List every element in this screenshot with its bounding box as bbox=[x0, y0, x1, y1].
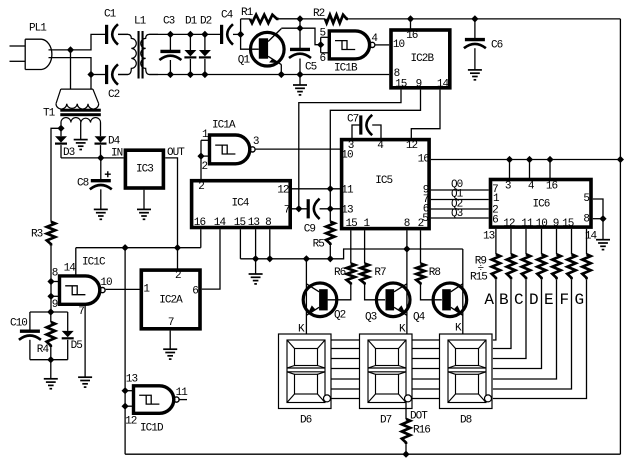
svg-text:D7: D7 bbox=[380, 415, 392, 427]
wire D7 dp to R16 bbox=[405, 402, 407, 419]
wire IC1A input tie bbox=[201, 139, 210, 141]
wire IC4 pin7 to C9 bbox=[292, 208, 308, 210]
ground C8 bbox=[94, 208, 108, 210]
node timing network top junction bbox=[47, 308, 54, 315]
wire segment bus D6-D7 bbox=[331, 378, 360, 380]
svg-text:C: C bbox=[514, 291, 523, 309]
transformer T1 secondary winding bbox=[61, 118, 101, 123]
svg-text:D3: D3 bbox=[63, 147, 75, 159]
svg-text:G: G bbox=[575, 291, 584, 309]
wire R7 to Q3 base bbox=[365, 285, 386, 300]
wire IC1D pin12 stub bbox=[125, 405, 133, 407]
capacitor C7 bbox=[359, 115, 362, 134]
wire IC1D output stub bbox=[180, 399, 188, 401]
svg-text:PL1: PL1 bbox=[29, 23, 47, 35]
svg-text:L1: L1 bbox=[134, 16, 147, 28]
capacitor C4 bbox=[220, 25, 223, 44]
node R5 top junction bbox=[327, 185, 334, 192]
svg-text:8: 8 bbox=[404, 218, 410, 230]
svg-text:R5: R5 bbox=[313, 239, 325, 251]
wire IC6 pin to R14 bbox=[571, 229, 573, 254]
node IC1C pin9 junction bbox=[47, 293, 54, 300]
node rail ground junction bbox=[252, 255, 259, 262]
capacitor C1 bbox=[105, 25, 108, 44]
wire D3 to IN node bbox=[61, 157, 101, 159]
resistor R5 bbox=[326, 222, 334, 245]
wire IC2B pin16 bbox=[410, 19, 412, 30]
svg-text:2: 2 bbox=[202, 161, 208, 173]
svg-text:6: 6 bbox=[192, 286, 198, 298]
wire R6 to Q2 base bbox=[328, 285, 351, 300]
transistor Q2 bbox=[303, 283, 337, 317]
display D6 decimal point bbox=[324, 395, 331, 402]
svg-text:R1: R1 bbox=[241, 7, 254, 19]
svg-text:D2: D2 bbox=[200, 16, 212, 28]
svg-text:6: 6 bbox=[492, 214, 498, 226]
node plug top junction bbox=[67, 46, 74, 53]
wire secondary left lead bbox=[60, 123, 62, 129]
wire IC6 pin5/pin8 tie bbox=[593, 199, 603, 219]
svg-text:16: 16 bbox=[418, 154, 430, 166]
wire segment bus D7-D8 bbox=[412, 378, 440, 380]
svg-text:D4: D4 bbox=[108, 136, 121, 148]
diode D1 bbox=[189, 34, 191, 50]
svg-text:Q4: Q4 bbox=[413, 312, 426, 324]
resistor R6 bbox=[347, 264, 355, 285]
ground IC3 bbox=[143, 190, 145, 210]
diode D2 bbox=[204, 34, 206, 50]
svg-text:C4: C4 bbox=[221, 10, 234, 22]
svg-text:6: 6 bbox=[320, 53, 326, 65]
node C9 right junction bbox=[327, 205, 334, 212]
wire IC6 pin to R12 bbox=[541, 229, 543, 254]
ic IC5 box bbox=[342, 140, 430, 229]
wire Q3 lead bbox=[406, 230, 408, 334]
wire IC6 pin4 bbox=[529, 160, 531, 180]
wire R13 to segment line bbox=[493, 279, 557, 379]
display D6 box bbox=[279, 334, 332, 409]
svg-text:12: 12 bbox=[503, 218, 515, 230]
wire IC6 pin3 bbox=[509, 160, 511, 180]
svg-text:C2: C2 bbox=[108, 89, 120, 101]
svg-text:IC2B: IC2B bbox=[411, 53, 435, 65]
display D8 box bbox=[440, 334, 493, 409]
node IC2A pin2 junction bbox=[174, 244, 181, 251]
svg-text:IC6: IC6 bbox=[533, 198, 550, 210]
svg-text:IN: IN bbox=[111, 148, 123, 160]
node IC6 pin8 junction bbox=[599, 215, 606, 222]
wire IN to IC3 bbox=[101, 157, 124, 159]
node secondary left junction bbox=[57, 125, 64, 132]
wire IC1C pin7 to ground bbox=[84, 304, 86, 377]
wire control net 248 bbox=[76, 247, 201, 249]
svg-text:D1: D1 bbox=[185, 16, 198, 28]
node IC1D pin13 junction bbox=[122, 387, 129, 394]
wire bottom bus L1 to IC2B pin8 bbox=[149, 74, 389, 76]
display D8 decimal point bbox=[485, 395, 492, 402]
svg-text:E: E bbox=[544, 291, 553, 309]
node C4 output junction bbox=[237, 31, 244, 38]
svg-text:R15: R15 bbox=[470, 272, 487, 284]
resistor R11 bbox=[522, 254, 530, 279]
node IC1D pin12 junction bbox=[122, 403, 129, 410]
wire Q1 collector to IC1B inputs bbox=[300, 28, 321, 45]
wire IC4 pin8 down bbox=[269, 229, 271, 258]
node IC4 pin8 rail junction bbox=[266, 255, 273, 262]
svg-text:Q3: Q3 bbox=[451, 208, 463, 220]
svg-text:15: 15 bbox=[395, 79, 407, 91]
node D1 top bbox=[187, 31, 194, 38]
wire C5 to bus bbox=[299, 59, 301, 75]
svg-text:B: B bbox=[499, 291, 508, 309]
wire IC2A pin6 to IC4 pin14 bbox=[202, 229, 220, 289]
wire IC1B output to IC2B bbox=[375, 44, 389, 46]
svg-text:C1: C1 bbox=[104, 9, 117, 21]
wire IC6 pin to R13 bbox=[556, 229, 558, 254]
wire junction down to T1 primary right bbox=[90, 75, 92, 90]
wire plug top output bbox=[49, 49, 71, 51]
svg-text:8: 8 bbox=[52, 268, 58, 280]
wire IC6 pin to R11 bbox=[525, 229, 527, 254]
svg-text:2: 2 bbox=[175, 270, 181, 282]
wire R8 to Q4 base bbox=[421, 285, 442, 300]
wire IC5 pin1 to R7 bbox=[364, 230, 366, 263]
wire R10 to segment line bbox=[493, 279, 511, 348]
svg-text:7: 7 bbox=[168, 317, 174, 329]
ic IC2A box bbox=[141, 270, 200, 329]
resistor R9 bbox=[492, 254, 500, 279]
wire IC6 pin to R9 bbox=[495, 229, 497, 254]
wire R5 bottom lead bbox=[329, 245, 331, 259]
node V+ rail junction bbox=[296, 15, 303, 22]
wire junction to C1 bbox=[71, 34, 107, 50]
wire R16 to bottom rail bbox=[405, 444, 407, 454]
wire plug bottom output bbox=[49, 58, 92, 75]
svg-text:IC1D: IC1D bbox=[140, 423, 164, 435]
svg-text:IC2A: IC2A bbox=[159, 294, 183, 306]
capacitor C10 bbox=[29, 312, 31, 331]
wire IC1B input tie bbox=[320, 37, 322, 53]
ground collector rail bbox=[255, 259, 257, 274]
wire collector rail A bbox=[240, 249, 462, 259]
wire top rail bbox=[279, 18, 326, 20]
wire C7 left lead to IC5 pin3 bbox=[352, 125, 361, 140]
display D6 digit bbox=[287, 340, 325, 403]
ground IC1C pin7 bbox=[78, 376, 92, 378]
svg-text:7: 7 bbox=[284, 205, 290, 217]
wire Q4 lead bbox=[462, 249, 464, 334]
wire segment bus D7-D8 bbox=[412, 388, 440, 390]
svg-text:10: 10 bbox=[536, 218, 548, 230]
op-amp gate IC1B bbox=[329, 31, 369, 59]
svg-text:11: 11 bbox=[521, 218, 534, 230]
svg-text:D6: D6 bbox=[300, 415, 312, 427]
node R5 bottom junction bbox=[327, 255, 334, 262]
svg-text:C5: C5 bbox=[305, 62, 317, 74]
transistor Q1 bbox=[250, 32, 284, 66]
node right rail junction bbox=[617, 156, 624, 163]
wire segment bus D6-D7 bbox=[331, 339, 360, 341]
svg-text:R2: R2 bbox=[313, 8, 325, 20]
wire stub to R3 vertical bbox=[51, 128, 61, 222]
svg-text:13: 13 bbox=[248, 217, 260, 229]
node IC1B input junction bbox=[317, 41, 324, 48]
node C2 junction bbox=[87, 71, 94, 78]
node R16 bottom junction bbox=[402, 451, 409, 458]
svg-text:5: 5 bbox=[583, 193, 589, 205]
svg-text:2: 2 bbox=[418, 218, 424, 230]
wire timing bottom bbox=[30, 359, 68, 361]
svg-text:15: 15 bbox=[346, 218, 358, 230]
ground C5 bus bbox=[299, 75, 301, 86]
svg-text:IC4: IC4 bbox=[232, 198, 250, 210]
svg-text:2: 2 bbox=[198, 181, 204, 193]
svg-text:10: 10 bbox=[393, 39, 405, 51]
op-amp gate IC1C bbox=[60, 276, 100, 304]
wire IC5 pin16 rail bbox=[431, 159, 621, 161]
svg-text:16: 16 bbox=[546, 180, 558, 192]
svg-text:3: 3 bbox=[505, 180, 511, 192]
wire IC5 pin2 to R8 bbox=[420, 230, 422, 263]
svg-text:9: 9 bbox=[52, 299, 58, 311]
resistor R15 bbox=[582, 254, 590, 279]
svg-text:F: F bbox=[560, 291, 569, 309]
wire R1 right lead bbox=[279, 18, 301, 20]
wire Q1 collector bbox=[281, 27, 300, 29]
svg-text:D8: D8 bbox=[460, 415, 472, 427]
svg-text:13: 13 bbox=[126, 373, 138, 385]
svg-text:16: 16 bbox=[406, 30, 418, 42]
wire segment bus D7-D8 bbox=[412, 368, 440, 370]
node IC6 pin3 junction bbox=[506, 156, 513, 163]
svg-text:12: 12 bbox=[406, 140, 418, 152]
wire junction down to T1 primary bbox=[70, 50, 72, 89]
wire right rail bbox=[619, 19, 621, 454]
node IC6 pin16 junction bbox=[546, 156, 553, 163]
svg-text:D: D bbox=[529, 291, 538, 309]
svg-text:A: A bbox=[484, 291, 494, 309]
wire IC6 pin to R10 bbox=[510, 229, 512, 254]
wire IC4 pin16 down bbox=[200, 229, 202, 247]
svg-text:R8: R8 bbox=[429, 267, 441, 279]
svg-text:14: 14 bbox=[214, 217, 227, 229]
wire segment bus D7-D8 bbox=[412, 339, 440, 341]
svg-text:8: 8 bbox=[583, 214, 589, 226]
wire segment bus D7-D8 bbox=[412, 348, 440, 350]
svg-text:16: 16 bbox=[194, 217, 206, 229]
node D2 top bbox=[201, 31, 208, 38]
display D7 box bbox=[360, 334, 413, 409]
wire junction up to R1 bbox=[240, 19, 242, 35]
node IC1A input junction bbox=[197, 153, 204, 160]
transformer T1 primary winding bbox=[56, 89, 99, 104]
node IC1C pin8 junction bbox=[47, 278, 54, 285]
wire segment bus D6-D7 bbox=[331, 358, 360, 360]
diode D4 bbox=[95, 136, 107, 142]
svg-text:Q3: Q3 bbox=[365, 312, 377, 324]
resistor R4 bbox=[50, 312, 52, 322]
diode D5 bbox=[67, 312, 69, 331]
node timing bottom junction bbox=[47, 356, 54, 363]
display D8 digit bbox=[448, 340, 486, 403]
wire IC1C output bbox=[106, 288, 140, 290]
svg-text:8: 8 bbox=[265, 217, 271, 229]
ground C6 bbox=[468, 69, 482, 71]
node C6 junction bbox=[471, 15, 478, 22]
svg-text:10: 10 bbox=[100, 277, 112, 289]
inductor L1 core bbox=[138, 31, 140, 79]
svg-text:9: 9 bbox=[553, 218, 559, 230]
svg-text:C9: C9 bbox=[304, 224, 316, 236]
svg-text:Q2: Q2 bbox=[334, 309, 346, 321]
inductor L1 right winding bbox=[141, 34, 158, 74]
wire bottom rail bbox=[125, 453, 620, 455]
resistor R3 bbox=[47, 222, 55, 246]
wire segment bus D7-D8 bbox=[412, 398, 440, 400]
ground timing network bbox=[50, 360, 52, 379]
svg-text:14: 14 bbox=[64, 263, 77, 275]
wire R14 to segment line bbox=[493, 279, 572, 389]
ic IC4 box bbox=[192, 181, 291, 228]
node IN junction bbox=[97, 154, 104, 161]
svg-text:IC1C: IC1C bbox=[82, 257, 106, 269]
wire Q1 net bbox=[431, 199, 489, 201]
wire R1 left lead bbox=[241, 18, 250, 20]
wire IC5 pin15 to R6 bbox=[350, 230, 352, 263]
node Q1 emitter bus junction bbox=[278, 71, 285, 78]
wire Q0 net bbox=[431, 189, 489, 191]
resistor R16 bbox=[402, 419, 410, 444]
wire junction down to Q1 base bbox=[241, 34, 259, 49]
wire IC6 pin16 bbox=[549, 160, 551, 180]
wire IC2B pin14 to IC5 pin12 bbox=[411, 90, 440, 140]
wire IC4 pin12 to IC5 pin11 bbox=[292, 188, 342, 190]
capacitor C5 bbox=[290, 48, 310, 51]
capacitor C9 bbox=[307, 199, 310, 218]
node C5 bus junction bbox=[296, 71, 303, 78]
svg-text:12: 12 bbox=[277, 185, 289, 197]
node Q1 collector junction bbox=[296, 25, 303, 32]
inductor L1 left winding bbox=[118, 34, 136, 74]
svg-text:IC5: IC5 bbox=[375, 175, 392, 187]
wire IC4 pin13 down bbox=[255, 229, 257, 258]
wire IC2B pin9 to R5 node bbox=[330, 90, 420, 222]
ic IC6 box bbox=[491, 180, 592, 228]
resistor R10 bbox=[507, 254, 515, 279]
op-amp gate IC1D bbox=[134, 386, 174, 414]
ic IC3 box bbox=[125, 150, 163, 188]
svg-text:R16: R16 bbox=[413, 424, 430, 436]
wire Q2 net bbox=[431, 208, 489, 210]
wire R12 to segment line bbox=[493, 279, 542, 368]
wire left loop vertical bbox=[124, 248, 126, 455]
wire Q3 net bbox=[431, 217, 489, 219]
wire IC6 pin to R15 bbox=[586, 229, 588, 254]
connector PL1 plug body bbox=[25, 39, 52, 69]
wire segment bus D6-D7 bbox=[331, 388, 360, 390]
svg-text:OUT: OUT bbox=[167, 147, 185, 159]
svg-text:11: 11 bbox=[341, 184, 354, 196]
node Q3 collector junction bbox=[403, 245, 410, 252]
svg-text:14: 14 bbox=[437, 79, 450, 91]
wire C9 to IC5 pin13 bbox=[320, 208, 342, 210]
svg-text:5: 5 bbox=[320, 28, 326, 40]
ground IC6 bbox=[602, 219, 604, 240]
node IC2B pin16 junction bbox=[407, 15, 414, 22]
svg-text:R4: R4 bbox=[37, 344, 50, 356]
wire IC4 pin15 down bbox=[239, 229, 241, 258]
wire segment bus D6-D7 bbox=[331, 348, 360, 350]
wire IC2B pin15 to C9 node bbox=[299, 90, 401, 209]
transistor Q3 bbox=[376, 283, 410, 317]
resistor R12 bbox=[537, 254, 545, 279]
resistor R2 bbox=[325, 15, 348, 23]
node C3 top bbox=[167, 31, 174, 38]
ic IC2B box bbox=[391, 30, 450, 88]
display D7 digit bbox=[368, 340, 406, 403]
wire secondary right lead bbox=[100, 123, 102, 137]
wire IC1D pin13 stub bbox=[125, 390, 133, 392]
wire C4 to R1/base junction bbox=[233, 33, 241, 35]
node left loop junction bbox=[122, 244, 129, 251]
wire R11 to segment line bbox=[493, 279, 526, 358]
capacitor C2 bbox=[105, 65, 108, 84]
wire Q1 emitter to bus bbox=[280, 65, 282, 75]
ground IC2A pin7 bbox=[169, 331, 171, 350]
svg-text:3: 3 bbox=[253, 136, 259, 148]
wire timing top bbox=[30, 311, 68, 313]
svg-text:13: 13 bbox=[483, 230, 495, 242]
svg-text:R7: R7 bbox=[374, 267, 386, 279]
capacitor C3 bbox=[169, 34, 171, 51]
wire junction to C2 bbox=[91, 74, 107, 76]
svg-text:C6: C6 bbox=[491, 40, 503, 52]
svg-text:11: 11 bbox=[176, 387, 189, 399]
resistor R14 bbox=[567, 254, 575, 279]
wire C7 right lead to IC5 pin4 bbox=[372, 125, 381, 140]
transistor Q4 bbox=[433, 283, 467, 317]
resistor R8 bbox=[416, 264, 424, 285]
svg-text:7: 7 bbox=[78, 306, 84, 318]
svg-text:C3: C3 bbox=[163, 16, 175, 28]
wire segment bus D6-D7 bbox=[331, 398, 360, 400]
node D2 bottom bbox=[201, 71, 208, 78]
svg-text:Q1: Q1 bbox=[238, 55, 251, 67]
wire C2 to L1 bbox=[118, 74, 128, 76]
svg-text:12: 12 bbox=[125, 416, 137, 428]
wire IC1C pin9 stub bbox=[51, 295, 60, 297]
node IC6 pin4 junction bbox=[526, 156, 533, 163]
svg-text:R3: R3 bbox=[31, 228, 43, 240]
wire segment bus D7-D8 bbox=[412, 358, 440, 360]
svg-text:C7: C7 bbox=[347, 114, 359, 126]
wire IC3 OUT down to IC2A pin2 bbox=[165, 158, 177, 270]
diode D3 bbox=[60, 128, 62, 136]
svg-text:IC1B: IC1B bbox=[334, 63, 358, 75]
svg-text:C10: C10 bbox=[10, 317, 27, 329]
wire R9 to segment line bbox=[493, 279, 496, 340]
svg-text:IC1A: IC1A bbox=[212, 120, 236, 132]
wire R15 to segment line bbox=[493, 279, 587, 398]
wire L1 to C4 top rail bbox=[149, 33, 221, 35]
svg-text:9: 9 bbox=[416, 79, 422, 91]
wire segment bus D6-D7 bbox=[331, 368, 360, 370]
svg-text:13: 13 bbox=[341, 204, 353, 216]
svg-text:15: 15 bbox=[562, 218, 574, 230]
wire R3 down to IC1C bbox=[50, 246, 52, 313]
node Q2 collector junction bbox=[303, 255, 310, 262]
wire IC1C pin14 bbox=[75, 248, 77, 276]
